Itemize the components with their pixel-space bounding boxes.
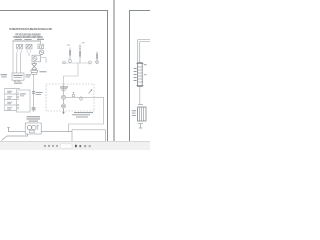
check valve arrow below box [63,108,65,114]
nav icon prev [44,145,46,147]
right page drawing frame [130,11,151,142]
title block box [72,130,105,141]
label below J1 [14,80,21,83]
port circle PT1 [72,93,75,97]
wire below valve bank [139,124,143,128]
dashed assembly box [46,84,94,111]
hose fitting F3 [96,52,99,65]
harness wire rung 1 [4,88,20,90]
suction return diagonal [2,134,28,141]
viewer toolbar [0,142,150,151]
pump circle P [32,125,37,130]
hose fitting F2 [79,45,81,64]
left page drawing frame [0,11,108,142]
label left of VB1 [132,110,136,116]
motor circle M [27,125,32,130]
arrow in box corner [89,90,93,94]
pump unit PU1 [32,55,41,62]
L2 pin stack lower [17,104,19,109]
label right of J1 [26,74,32,75]
box L2 [17,90,31,112]
text inside L2 [20,93,26,94]
svg-text:SCHEMATIC FOR DOUBLE FRONT AXL: SCHEMATIC FOR DOUBLE FRONT AXLE UNIT A [9,27,53,31]
svg-text:HYDRAULIC CIRCUIT AND COMPONEN: HYDRAULIC CIRCUIT AND COMPONENTS [13,36,43,39]
harness label text [1,74,8,75]
coupling X symbol [32,62,37,70]
bottom bus wire [41,131,72,133]
feed stub into box [62,84,66,95]
valve bank VB1 [132,105,146,124]
label above harness [14,83,22,84]
fitting F2 label [82,41,85,44]
wire from pump to right [41,58,47,64]
check valve label text [72,112,93,118]
accumulator A1 [134,63,147,87]
label right of filter [40,71,47,72]
port circle PT2 [80,96,83,100]
page divider edge [113,0,115,141]
page number field [61,144,73,148]
manifold line [66,96,95,98]
harness wire rung 2 [4,93,16,95]
toolbar icon zoom-out [52,145,54,147]
pump assembly label [27,116,41,121]
gauge circle C1 [62,95,66,99]
manifold wire with unions [62,61,91,64]
L2 pin stack upper [17,93,19,99]
wire labels [7,91,12,110]
wire down from filter [33,74,35,90]
pressure gauge G1 [39,50,44,55]
wire below accumulator [139,87,141,105]
nav icon next [48,145,50,147]
return wire right loop [69,97,104,131]
label left of A1 [134,68,137,81]
marks right of A1 [144,64,147,65]
fitting F1 label [67,44,70,47]
tank return jog [9,128,26,132]
harness wire rung 4 [4,104,16,106]
return line S-path [64,63,79,84]
harness wire rung 5 [4,110,16,112]
toolbar icon zoom-in [56,145,58,147]
junction box J1 with text [12,73,24,80]
solenoid valve V1 [15,39,23,53]
pump and motor assembly box [25,123,41,134]
page count text [75,145,77,147]
wire verticals from bus [13,41,41,73]
harness wire rung 3 [4,99,16,101]
solenoid valve V2 [24,39,32,53]
hose fitting F1 [69,48,72,63]
filter trapezoid [31,71,38,75]
gauge circle C2 [62,99,66,108]
top bus wire [13,40,42,42]
valve V3 with label [37,39,44,49]
harness left bus [3,89,5,111]
label inside dashed box [60,86,68,87]
valve element right of L2 [32,90,43,112]
right page double feed lines [138,40,150,62]
